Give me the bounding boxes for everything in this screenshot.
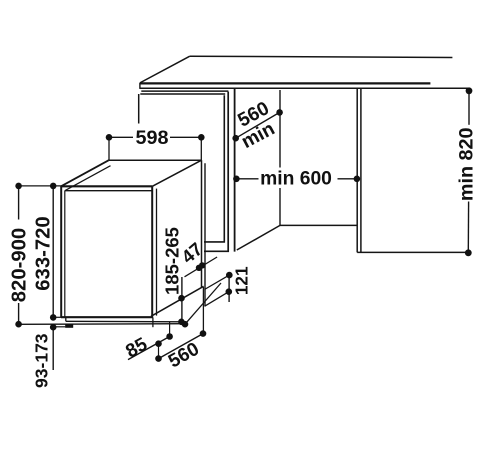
- door corner drop line: [152, 317, 154, 327]
- dishwasher side bottom edge: [151, 286, 204, 316]
- dimension 85 diagonal line: [128, 337, 170, 360]
- dishwasher top face back edge: [109, 159, 202, 161]
- svg-text:560: 560: [165, 339, 203, 373]
- dishwasher door inner left line: [64, 191, 66, 318]
- dot 598 right: [198, 134, 205, 141]
- extension line from back corner down to 560 dot: [202, 287, 204, 334]
- svg-text:min 820: min 820: [456, 127, 478, 201]
- dot min820 top: [466, 87, 473, 94]
- svg-text:598: 598: [135, 127, 168, 149]
- dishwasher door right edge: [151, 186, 153, 317]
- dimension 560 diagonal line: [159, 334, 204, 359]
- dot 560min upper: [276, 109, 283, 116]
- dot 121 lower: [226, 288, 233, 295]
- dimension 47 diagonal line: [185, 257, 218, 277]
- 121 upper extension diagonal: [205, 275, 230, 289]
- dishwasher top face right slant: [152, 160, 201, 186]
- plinth step vertical: [65, 318, 67, 322]
- niche floor back edge: [280, 224, 357, 226]
- dimension 820-900 line lower: [18, 303, 20, 324]
- dot 121 upper: [226, 272, 233, 279]
- right cabinet left edge outer: [356, 89, 358, 253]
- dishwasher back right edge: [201, 160, 203, 288]
- dimension min 820 line upper: [468, 91, 470, 125]
- diagonal extension from B2 corner: [185, 283, 221, 324]
- top extension line to dishwasher corner: [19, 185, 61, 187]
- dishwasher back right edge second line: [204, 163, 206, 306]
- stub at dishwasher bottom corner: [53, 316, 61, 318]
- dot 633-720 bottom: [50, 314, 57, 321]
- dimension min 600 line left part: [236, 178, 258, 180]
- dimension 633-720 line upper: [52, 186, 54, 317]
- svg-text:93-173: 93-173: [31, 333, 51, 388]
- dot 820-900 top: [15, 183, 22, 190]
- dot 633-720 top: [50, 183, 57, 190]
- dot 47 upper: [199, 262, 205, 268]
- stub at foot level: [53, 326, 65, 328]
- worktop top edge: [190, 56, 453, 57]
- svg-text:85: 85: [122, 334, 151, 363]
- worktop left slant edge: [140, 56, 190, 83]
- adjustable foot black bar: [65, 325, 73, 328]
- plinth bottom line: [66, 320, 185, 323]
- dimension 820-900 line upper: [18, 186, 20, 220]
- dishwasher door side edge line: [156, 189, 158, 316]
- cabinet left dangling edge: [138, 94, 140, 124]
- svg-text:min 600: min 600: [260, 169, 332, 190]
- floor line: [19, 323, 188, 326]
- dishwasher top face left slant: [61, 160, 109, 186]
- dot 820-900 bottom: [15, 321, 22, 328]
- niche back-left vertical edge: [279, 90, 281, 225]
- dimension 560 min diagonal line: [236, 112, 280, 138]
- dimension min 820 line lower: [467, 202, 469, 253]
- right cabinet left edge inner: [360, 89, 362, 253]
- 598 extension right: [200, 140, 202, 160]
- svg-text:820-900: 820-900: [8, 228, 30, 302]
- dot min820 bottom: [465, 249, 472, 256]
- dot 93-173 top: [50, 324, 57, 331]
- dot 185-265 lower B: [178, 319, 185, 326]
- dishwasher lid inner slant: [65, 166, 111, 191]
- svg-text:633-720: 633-720: [33, 216, 55, 290]
- niche left wall front edge inner: [204, 92, 228, 252]
- svg-text:121: 121: [232, 266, 252, 295]
- cabinet rail upper line: [141, 90, 228, 92]
- dot 560min lower: [232, 135, 239, 142]
- dot min600 right: [354, 176, 361, 183]
- svg-text:185-265: 185-265: [161, 227, 182, 295]
- worktop front face bottom line: [140, 87, 468, 89]
- dimension min 600 line right part: [338, 178, 357, 180]
- vertical connector to 85 right dot: [169, 322, 171, 337]
- worktop front face left edge: [139, 83, 141, 89]
- dot 560 right: [200, 330, 207, 337]
- dishwasher top face front edge: [61, 185, 152, 187]
- 598 extension left: [108, 140, 110, 160]
- dot 560 left: [155, 355, 162, 362]
- dot 85 right: [166, 333, 173, 340]
- white mask behind min 600 label: [261, 168, 333, 189]
- dimension 121 line: [228, 274, 230, 302]
- dimension 93-173 line: [52, 327, 54, 370]
- dishwasher door outer left edge: [60, 186, 62, 317]
- right cabinet bottom edge: [357, 251, 468, 253]
- cabinet rail lower line: [140, 93, 225, 95]
- connector 85 to 560 left dots: [158, 344, 160, 359]
- dishwasher door bottom edge: [61, 316, 153, 318]
- dimension 598 line left part: [109, 136, 133, 138]
- niche floor left diagonal: [237, 225, 280, 250]
- 121 lower extension diagonal: [205, 292, 229, 307]
- niche left wall front edge outer: [204, 95, 224, 242]
- dot 185-265 upper A: [178, 295, 185, 302]
- dimension 598 line right part: [170, 136, 201, 138]
- dot 598 left: [106, 134, 113, 141]
- dot 47 lower: [196, 265, 202, 271]
- dot 85 left: [155, 340, 162, 347]
- dimension 185-265 vertical line: [181, 277, 183, 322]
- niche left wall inner face line: [234, 89, 236, 252]
- dot min600 left: [233, 176, 240, 183]
- dishwasher door inner top line: [65, 190, 153, 192]
- dot B2 corner: [182, 321, 189, 328]
- worktop front face top line: [140, 82, 431, 84]
